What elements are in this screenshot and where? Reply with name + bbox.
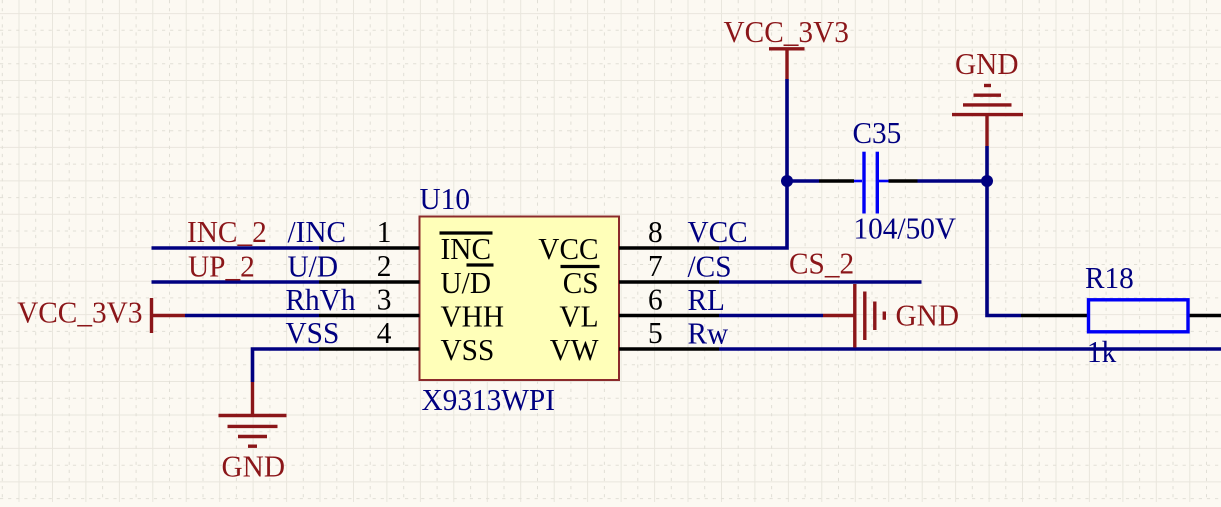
label RhVh: [286, 282, 356, 317]
svg-text:6: 6: [648, 282, 663, 317]
svg-text:INC: INC: [441, 231, 492, 266]
svg-text:1k: 1k: [1087, 334, 1117, 369]
ground GND (top right): [952, 46, 1023, 146]
svg-text:VCC_3V3: VCC_3V3: [17, 295, 142, 330]
svg-text:GND: GND: [955, 46, 1019, 81]
wire net Rw (pin 5): [719, 347, 1221, 351]
svg-text:U/D: U/D: [441, 265, 492, 300]
wire pin 4 to GND: [253, 349, 320, 382]
wire pin 8 to VCC_3V3 rail: [719, 181, 787, 248]
label /CS: [688, 249, 732, 284]
value label C35: [853, 115, 902, 150]
svg-text:VSS: VSS: [441, 332, 495, 367]
wire pin 6 to GND: [719, 314, 823, 318]
svg-text:Rw: Rw: [688, 316, 729, 351]
svg-text:VSS: VSS: [286, 315, 340, 350]
wire net UP_2 (pin 2 stub): [152, 280, 320, 284]
pin 2 U/D: [319, 248, 494, 300]
pin 4 VSS: [319, 315, 494, 367]
capacitor C35: [819, 152, 918, 214]
svg-text:CS: CS: [563, 265, 599, 300]
power port VCC_3V3 (left): [17, 295, 185, 334]
wire net CS_2 (pin 7): [719, 280, 922, 284]
svg-text:VW: VW: [550, 332, 599, 367]
label U/D: [288, 249, 339, 284]
comment X9313WPI: [422, 382, 556, 417]
svg-text:INC_2: INC_2: [187, 214, 267, 249]
svg-text:C35: C35: [853, 115, 902, 150]
svg-text:5: 5: [648, 315, 663, 350]
svg-text:GND: GND: [222, 449, 286, 484]
svg-text:CS_2: CS_2: [789, 246, 854, 281]
ground GND (pin 6, rotated): [823, 284, 959, 348]
svg-text:RhVh: RhVh: [286, 282, 356, 317]
wire net INC_2 (pin 1 stub): [152, 246, 320, 250]
label VCC: [688, 214, 748, 249]
value label 1k: [1087, 334, 1117, 369]
svg-text:UP_2: UP_2: [188, 249, 255, 284]
svg-text:1: 1: [377, 214, 392, 249]
pin 5 VW: [550, 315, 719, 367]
svg-text:U10: U10: [420, 181, 471, 216]
svg-text:RL: RL: [688, 282, 725, 317]
wire GND stem to junction to R18: [987, 146, 1021, 316]
pin 1 INC: [319, 214, 493, 266]
pin 7 CS: [561, 248, 720, 300]
ground GND (bottom): [219, 382, 287, 484]
svg-text:7: 7: [648, 248, 663, 283]
junction at GND rail / C35: [981, 175, 993, 187]
label Rw: [688, 316, 729, 351]
svg-text:VCC: VCC: [538, 231, 598, 266]
svg-text:8: 8: [648, 214, 663, 249]
net label UP_2: [188, 249, 255, 284]
svg-text:GND: GND: [896, 298, 960, 333]
label VSS: [286, 315, 340, 350]
svg-text:VCC_3V3: VCC_3V3: [724, 14, 849, 49]
svg-text:3: 3: [377, 282, 392, 317]
svg-text:2: 2: [377, 248, 392, 283]
power port VCC_3V3 (top): [724, 14, 849, 79]
junction at VCC rail / C35: [781, 175, 793, 187]
svg-text:X9313WPI: X9313WPI: [422, 382, 556, 417]
net label INC_2: [187, 214, 267, 249]
svg-text:U/D: U/D: [288, 249, 339, 284]
wire VCC_3V3 to pin 3: [185, 314, 319, 318]
resistor R18: [1021, 300, 1221, 332]
pin 6 VL: [559, 282, 719, 334]
wire VCC_3V3 power stem to junction: [785, 79, 789, 181]
svg-text:VCC: VCC: [688, 214, 748, 249]
value label 104/50V: [854, 211, 957, 246]
designator U10: [420, 181, 471, 216]
net label CS_2: [789, 246, 854, 281]
designator R18: [1085, 260, 1134, 295]
pin 8 VCC: [538, 214, 719, 266]
wire junction to C35 left pin: [787, 179, 819, 183]
label /INC: [288, 214, 347, 249]
svg-text:VL: VL: [559, 299, 598, 334]
label RL: [688, 282, 725, 317]
svg-text:4: 4: [377, 315, 392, 350]
svg-text:/INC: /INC: [288, 214, 347, 249]
IC U10 X9313WPI body: [420, 217, 620, 381]
pin 3 VHH: [319, 282, 504, 334]
wire C35 right pin to junction: [918, 179, 988, 183]
svg-text:/CS: /CS: [688, 249, 732, 284]
svg-text:104/50V: 104/50V: [854, 211, 957, 246]
svg-text:R18: R18: [1085, 260, 1134, 295]
svg-text:VHH: VHH: [441, 299, 505, 334]
